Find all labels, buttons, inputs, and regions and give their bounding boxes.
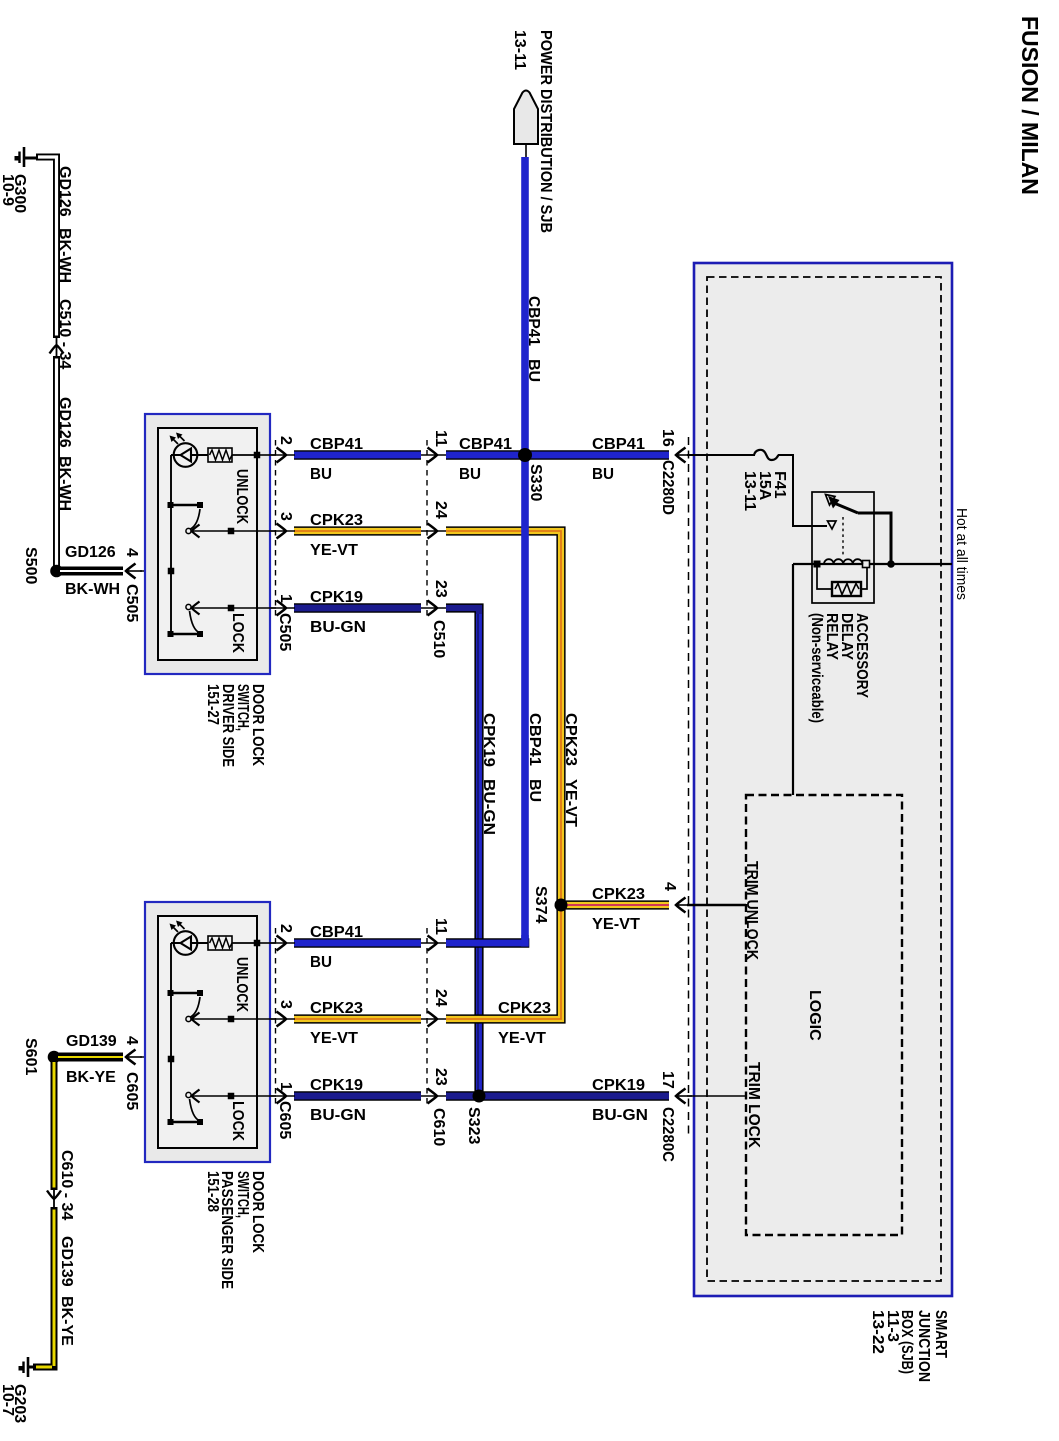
wire GD139 BK-YE to passenger switch pin 4 xyxy=(58,1053,123,1062)
wire CBP41 BU main vertical xyxy=(521,157,529,941)
connector C505 dashed line xyxy=(275,440,277,618)
connector C605 pin 4 arrow xyxy=(126,1056,142,1058)
svg-text:CPK23: CPK23 xyxy=(310,512,363,529)
svg-text:BU-GN: BU-GN xyxy=(480,779,497,835)
wire GD126 BK-WH to driver switch pin 4 xyxy=(60,567,123,576)
relay armature xyxy=(834,503,858,513)
wire CPK23 YE-VT passenger row xyxy=(294,1014,421,1023)
SJB inner dashed boundary xyxy=(707,277,941,1281)
connector C2280 dashed line xyxy=(688,437,690,1135)
wire into driver switch xyxy=(140,570,171,572)
svg-text:S601: S601 xyxy=(22,1038,39,1075)
svg-text:YE-VT: YE-VT xyxy=(310,1030,358,1047)
svg-text:GD126: GD126 xyxy=(65,544,116,561)
door lock switch passenger side xyxy=(145,902,270,1162)
in-line connector C510-34 break xyxy=(56,336,58,357)
connector C2280D pin 4 arrow xyxy=(676,904,692,906)
svg-text:C605: C605 xyxy=(276,1101,293,1139)
svg-text:CPK23: CPK23 xyxy=(498,1000,551,1017)
svg-text:CPK23: CPK23 xyxy=(310,1000,363,1017)
svg-text:17: 17 xyxy=(659,1071,676,1089)
logic block dashed box xyxy=(746,795,902,1235)
splice S323 xyxy=(473,1090,486,1103)
svg-text:151-27: 151-27 xyxy=(204,684,221,725)
ground G203 xyxy=(27,1357,30,1377)
svg-text:YE-VT: YE-VT xyxy=(498,1030,546,1047)
ground G300 xyxy=(23,147,26,167)
wire CBP41 BU passenger row xyxy=(294,938,421,948)
svg-text:4: 4 xyxy=(661,882,678,891)
connector C610 pin 24 arrow xyxy=(421,1018,446,1020)
svg-text:CPK19: CPK19 xyxy=(592,1077,645,1094)
svg-text:BU-GN: BU-GN xyxy=(592,1107,648,1124)
accessory delay relay box xyxy=(812,492,874,603)
connector C510 pin 24 arrow xyxy=(421,530,446,532)
relay contact (lower, from fuse) xyxy=(828,521,837,529)
svg-text:LOGIC: LOGIC xyxy=(806,990,823,1041)
trim lock drive line xyxy=(687,1095,746,1097)
smart junction box SJB outline xyxy=(694,263,952,1296)
svg-text:YE-VT: YE-VT xyxy=(310,542,358,559)
svg-text:YE-VT: YE-VT xyxy=(592,916,640,933)
svg-text:C605: C605 xyxy=(123,1072,140,1110)
svg-text:Hot at all times: Hot at all times xyxy=(953,508,970,600)
svg-text:GD139: GD139 xyxy=(58,1236,75,1287)
wire CPK23 YE-VT splice to SJB xyxy=(561,900,669,909)
connector C510 pin 23 arrow xyxy=(421,607,446,609)
svg-text:JUNCTION: JUNCTION xyxy=(915,1310,932,1382)
svg-text:C510: C510 xyxy=(430,620,447,658)
connector C610 pin 11 arrow xyxy=(421,942,446,944)
connector C505 pin 3 arrow xyxy=(270,530,295,532)
connector C505 pin 1 arrow xyxy=(270,607,295,609)
svg-text:FUSION / MILAN: FUSION / MILAN xyxy=(1017,16,1043,195)
connector C605 pin 3 arrow xyxy=(270,1018,295,1020)
wire from fuse to relay contact xyxy=(778,455,827,526)
svg-text:C610: C610 xyxy=(430,1108,447,1146)
relay contact (upper) xyxy=(826,495,836,506)
svg-text:1: 1 xyxy=(277,594,294,603)
svg-text:TRIM UNLOCK: TRIM UNLOCK xyxy=(743,861,760,960)
svg-text:YE-VT: YE-VT xyxy=(562,779,579,827)
wire CPK19 BU-GN driver row xyxy=(294,603,421,613)
svg-text:1: 1 xyxy=(277,1082,294,1091)
svg-text:BK-YE: BK-YE xyxy=(66,1069,116,1086)
connector C605 pin 2 arrow xyxy=(270,942,295,944)
svg-text:UNLOCK: UNLOCK xyxy=(233,957,250,1012)
svg-text:CPK19: CPK19 xyxy=(310,1077,363,1094)
svg-text:C2280C: C2280C xyxy=(659,1107,676,1162)
svg-text:CBP41: CBP41 xyxy=(310,924,363,941)
svg-text:TRIM LOCK: TRIM LOCK xyxy=(745,1062,762,1148)
svg-text:C505: C505 xyxy=(276,613,293,651)
wire CPK23 YE-VT to vertical run xyxy=(446,531,561,905)
svg-text:4: 4 xyxy=(123,548,140,557)
splice S500 xyxy=(50,565,63,578)
relay coil xyxy=(814,561,821,568)
svg-text:BU: BU xyxy=(525,359,542,382)
svg-text:CBP41: CBP41 xyxy=(310,436,363,453)
svg-text:POWER DISTRIBUTION / SJB: POWER DISTRIBUTION / SJB xyxy=(537,30,554,233)
connector C610 dashed line xyxy=(426,928,428,1106)
splice S601 xyxy=(48,1051,61,1064)
hot at all times feed line xyxy=(793,563,952,565)
splice S330 xyxy=(518,448,532,462)
wire CBP41 BU driver row xyxy=(294,450,421,460)
door lock switch driver side xyxy=(145,414,270,674)
connector C2280C pin 17 arrow xyxy=(676,1095,692,1097)
connector C605 pin 1 arrow xyxy=(270,1095,295,1097)
wire GD139 BK-YE lower segment to G203 xyxy=(33,1207,54,1367)
svg-text:3: 3 xyxy=(277,1000,294,1009)
svg-text:23: 23 xyxy=(432,580,449,598)
relay actuation dashed link xyxy=(842,517,844,556)
svg-text:BK-WH: BK-WH xyxy=(56,456,73,511)
svg-text:C510 - 34: C510 - 34 xyxy=(56,299,73,369)
svg-text:24: 24 xyxy=(432,989,449,1007)
svg-text:151-28: 151-28 xyxy=(204,1171,221,1212)
svg-text:GD139: GD139 xyxy=(66,1033,117,1050)
wire CPK19 BU-GN to vertical run xyxy=(446,608,479,1096)
svg-text:CBP41: CBP41 xyxy=(526,713,543,766)
wire CPK23 YE-VT rising to S374 xyxy=(446,905,561,1019)
svg-text:BK-WH: BK-WH xyxy=(56,228,73,283)
svg-text:BU: BU xyxy=(526,779,543,802)
svg-text:10-7: 10-7 xyxy=(0,1384,16,1416)
svg-text:SMART: SMART xyxy=(932,1310,949,1358)
svg-text:CPK19: CPK19 xyxy=(480,713,497,767)
svg-text:2: 2 xyxy=(277,924,294,933)
wire GD126 BK-WH upper (S500 to G300) xyxy=(36,157,57,338)
connector C505 pin 2 arrow xyxy=(270,454,295,456)
svg-text:S374: S374 xyxy=(532,886,549,923)
svg-text:BK-WH: BK-WH xyxy=(65,581,120,598)
connector C610 pin 23 arrow xyxy=(421,1095,446,1097)
fuse F41 15A xyxy=(754,450,779,460)
svg-text:11: 11 xyxy=(432,430,449,447)
svg-text:BU-GN: BU-GN xyxy=(310,619,366,636)
svg-text:10-9: 10-9 xyxy=(0,174,16,206)
junction xyxy=(887,560,895,568)
svg-text:GD126: GD126 xyxy=(56,397,73,448)
svg-text:S500: S500 xyxy=(22,547,39,584)
svg-text:13-11: 13-11 xyxy=(511,30,528,70)
trim unlock drive line xyxy=(687,904,746,907)
svg-text:S323: S323 xyxy=(465,1107,482,1144)
svg-text:GD126: GD126 xyxy=(56,166,73,217)
wire from C2280D-16 to fuse xyxy=(687,454,755,456)
svg-text:BK-YE: BK-YE xyxy=(58,1296,75,1346)
svg-text:BU: BU xyxy=(310,466,332,483)
wire CPK23 YE-VT driver row xyxy=(294,526,421,535)
svg-text:16: 16 xyxy=(659,429,676,447)
svg-text:LOCK: LOCK xyxy=(229,1101,246,1141)
wire into passenger switch xyxy=(140,1056,171,1058)
off-page connector to POWER DISTRIBUTION / SJB xyxy=(514,91,538,145)
svg-text:C505: C505 xyxy=(123,584,140,622)
svg-text:13-11: 13-11 xyxy=(741,471,758,511)
svg-text:2: 2 xyxy=(277,436,294,445)
svg-text:LOCK: LOCK xyxy=(229,613,246,653)
svg-text:CBP41: CBP41 xyxy=(525,296,542,346)
wire GD139 BK-YE upper segment xyxy=(51,1062,58,1190)
svg-text:BU: BU xyxy=(459,466,481,483)
connector C510 dashed line xyxy=(426,440,428,618)
svg-text:CBP41: CBP41 xyxy=(459,436,512,453)
svg-text:C2280D: C2280D xyxy=(659,460,676,515)
connector C605 dashed line xyxy=(275,928,277,1106)
wire GD126 BK-WH lower xyxy=(53,356,60,571)
svg-text:BU-GN: BU-GN xyxy=(310,1107,366,1124)
svg-text:CPK19: CPK19 xyxy=(310,589,363,606)
coil suppression resistor xyxy=(817,567,832,589)
svg-text:13-22: 13-22 xyxy=(869,1310,886,1354)
svg-text:24: 24 xyxy=(432,501,449,519)
svg-text:BU: BU xyxy=(592,466,614,483)
svg-text:(Non-serviceable): (Non-serviceable) xyxy=(808,613,825,723)
wire CPK19 BU-GN passenger row xyxy=(294,1091,421,1101)
svg-text:CBP41: CBP41 xyxy=(592,436,645,453)
svg-text:11: 11 xyxy=(432,918,449,935)
svg-text:C610 - 34: C610 - 34 xyxy=(58,1150,75,1220)
in-line connector C610-34 break xyxy=(53,1188,55,1208)
connector C2280D pin 16 arrow xyxy=(676,454,692,456)
svg-text:23: 23 xyxy=(432,1068,449,1086)
splice S374 xyxy=(555,899,568,912)
connector C505 pin 4 arrow xyxy=(126,570,142,572)
svg-text:BU: BU xyxy=(310,954,332,971)
svg-text:CPK23: CPK23 xyxy=(592,886,645,903)
connector C510 pin 11 arrow xyxy=(421,454,446,456)
svg-text:CPK23: CPK23 xyxy=(562,713,579,766)
svg-text:SWITCH,: SWITCH, xyxy=(234,1171,251,1218)
svg-text:UNLOCK: UNLOCK xyxy=(233,469,250,524)
svg-text:S330: S330 xyxy=(527,464,544,501)
wire from coil to logic xyxy=(792,564,794,795)
svg-text:4: 4 xyxy=(123,1036,140,1045)
svg-text:3: 3 xyxy=(277,512,294,521)
